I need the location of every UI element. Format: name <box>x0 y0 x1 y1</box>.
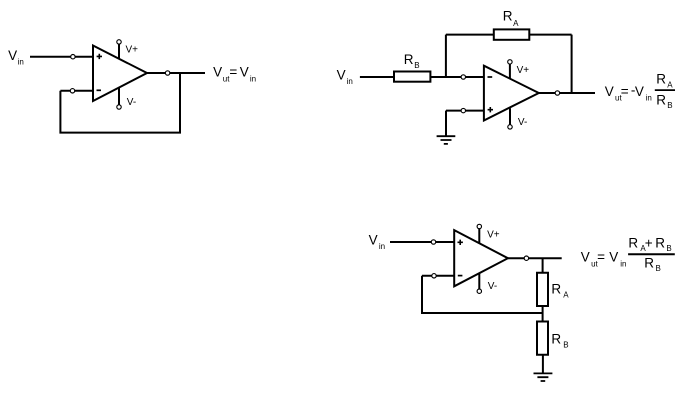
svg-text:+: + <box>645 235 653 250</box>
svg-text:V: V <box>369 233 378 248</box>
svg-text:=: = <box>621 84 629 99</box>
resistor RB (divider bottom) <box>537 322 548 355</box>
ground (circuit 3) <box>534 373 553 381</box>
label V- (U1) <box>127 97 136 108</box>
node Vin (circuit 2) label <box>337 68 353 86</box>
svg-text:V: V <box>213 65 222 80</box>
label equation Vut = Vin (RA+RB)/RB <box>581 235 672 273</box>
svg-text:V: V <box>581 250 590 265</box>
pin terminal circle U3 - input <box>432 274 436 278</box>
svg-text:B: B <box>563 340 568 349</box>
svg-text:V: V <box>337 68 346 83</box>
svg-text:A: A <box>563 290 569 299</box>
wire Vin to op-amp U1 + input <box>30 56 93 58</box>
pin terminal circle U2 V- <box>508 125 512 129</box>
wire U3 - input <box>422 275 454 277</box>
wire feedback down to output <box>571 35 573 93</box>
wire RB to ground <box>542 355 544 374</box>
wire U1 V+ stem <box>118 42 120 59</box>
wire U1 - input <box>60 90 93 92</box>
svg-text:V: V <box>240 65 249 80</box>
pin terminal circle U2 V+ <box>508 60 512 64</box>
wire RA to RB junction <box>542 306 544 322</box>
svg-text:V-: V- <box>127 97 136 108</box>
wire U1 feedback loop <box>60 73 180 133</box>
svg-text:R: R <box>656 93 666 108</box>
label V- (U3) <box>488 281 497 292</box>
svg-text:in: in <box>250 74 256 83</box>
resistor RB (series) <box>394 72 430 82</box>
svg-text:in: in <box>347 77 353 86</box>
U3 + input marker <box>458 240 463 245</box>
svg-text:R: R <box>551 332 561 347</box>
wire RA to output branch <box>529 34 571 36</box>
op-amp U2 <box>484 66 539 121</box>
pin terminal circle U2 output <box>555 91 559 95</box>
svg-text:in: in <box>18 57 24 66</box>
svg-text:V+: V+ <box>487 230 500 241</box>
wire + input down to ground <box>445 111 447 137</box>
wire Vin to resistor RB <box>360 76 394 78</box>
fraction bar (RA+RB)/RB (circuit 3) <box>628 253 675 255</box>
svg-text:V: V <box>605 84 614 99</box>
pin terminal circle U3 V- <box>477 289 481 293</box>
U1 - input marker <box>97 89 102 91</box>
wire U3 V+ stem <box>478 227 480 244</box>
svg-text:R: R <box>503 9 513 24</box>
wire U2 + input <box>446 110 484 112</box>
pin terminal circle U3 + input <box>431 240 435 244</box>
wire U2 V+ stem <box>509 62 511 79</box>
svg-text:V: V <box>609 250 618 265</box>
resistor RA (feedback) <box>494 29 530 39</box>
wire RB to U2 - input <box>430 76 484 78</box>
op-amp U1 <box>93 46 147 102</box>
label V+ (U2) <box>517 65 530 76</box>
svg-text:V+: V+ <box>517 65 530 76</box>
svg-text:V-: V- <box>488 281 497 292</box>
pin terminal circle U2 + input <box>461 108 465 112</box>
svg-text:=: = <box>229 65 237 80</box>
svg-text:A: A <box>667 80 673 89</box>
pin terminal circle U2 - input <box>461 75 465 79</box>
fraction bar RA/RB (circuit 2) <box>655 89 675 91</box>
label RA <box>503 9 519 28</box>
svg-text:=: = <box>597 250 605 265</box>
resistor RA (divider top) <box>537 273 548 306</box>
svg-text:V-: V- <box>518 117 527 128</box>
U1 + input marker <box>97 54 102 59</box>
label V+ (U1) <box>126 45 139 56</box>
node Vin (circuit 1) label <box>8 48 24 66</box>
svg-text:B: B <box>666 244 671 253</box>
svg-text:R: R <box>655 235 665 250</box>
wire feedback from divider to U3 - input <box>422 276 543 313</box>
wire output branch down to RA <box>542 258 544 273</box>
svg-text:R: R <box>656 72 666 87</box>
svg-text:R: R <box>644 256 654 271</box>
pin terminal circle U1 + input <box>71 55 75 59</box>
svg-text:in: in <box>620 259 626 268</box>
wire U3 V- stem <box>478 273 480 291</box>
wire feedback junction up <box>445 35 447 77</box>
label equation Vut = -Vin RA/RB <box>605 72 674 111</box>
wire U2 V- stem <box>509 108 511 127</box>
svg-text:V: V <box>8 48 17 63</box>
node Vin (circuit 3) label <box>369 233 386 251</box>
U2 + input marker <box>488 107 493 112</box>
wire U1 V- stem <box>118 88 120 108</box>
svg-text:R: R <box>551 282 561 297</box>
wire top to resistor RA <box>446 34 494 36</box>
svg-text:B: B <box>656 264 661 273</box>
label V+ (U3) <box>487 230 500 241</box>
svg-text:A: A <box>513 19 519 28</box>
pin terminal circle U1 V+ <box>117 40 121 44</box>
svg-text:B: B <box>414 61 419 70</box>
svg-text:R: R <box>404 52 414 67</box>
svg-text:R: R <box>628 235 638 250</box>
label RB (circuit 3) <box>551 332 568 350</box>
wire U3 output <box>508 257 562 259</box>
ground (circuit 2) <box>437 136 456 144</box>
label equation Vut = Vin <box>213 65 256 84</box>
op-amp U3 <box>454 230 508 286</box>
wire U1 output <box>147 72 205 74</box>
pin terminal circle U1 output <box>165 71 169 75</box>
pin terminal circle U1 - input <box>70 89 74 93</box>
pin terminal circle U3 output <box>524 256 528 260</box>
svg-text:V+: V+ <box>126 45 139 56</box>
U3 - input marker <box>458 275 463 277</box>
label RB <box>404 52 420 70</box>
svg-text:in: in <box>646 94 652 103</box>
svg-text:B: B <box>667 101 672 110</box>
wire U2 output <box>539 92 595 94</box>
label RA (circuit 3) <box>551 282 569 300</box>
wire Vin to op-amp U3 + input <box>390 241 454 243</box>
svg-text:in: in <box>379 242 385 251</box>
label V- (U2) <box>518 117 527 128</box>
U2 - input marker <box>488 76 493 78</box>
pin terminal circle U1 V- <box>117 105 121 109</box>
svg-text:V: V <box>635 84 644 99</box>
pin terminal circle U3 V+ <box>477 224 481 228</box>
